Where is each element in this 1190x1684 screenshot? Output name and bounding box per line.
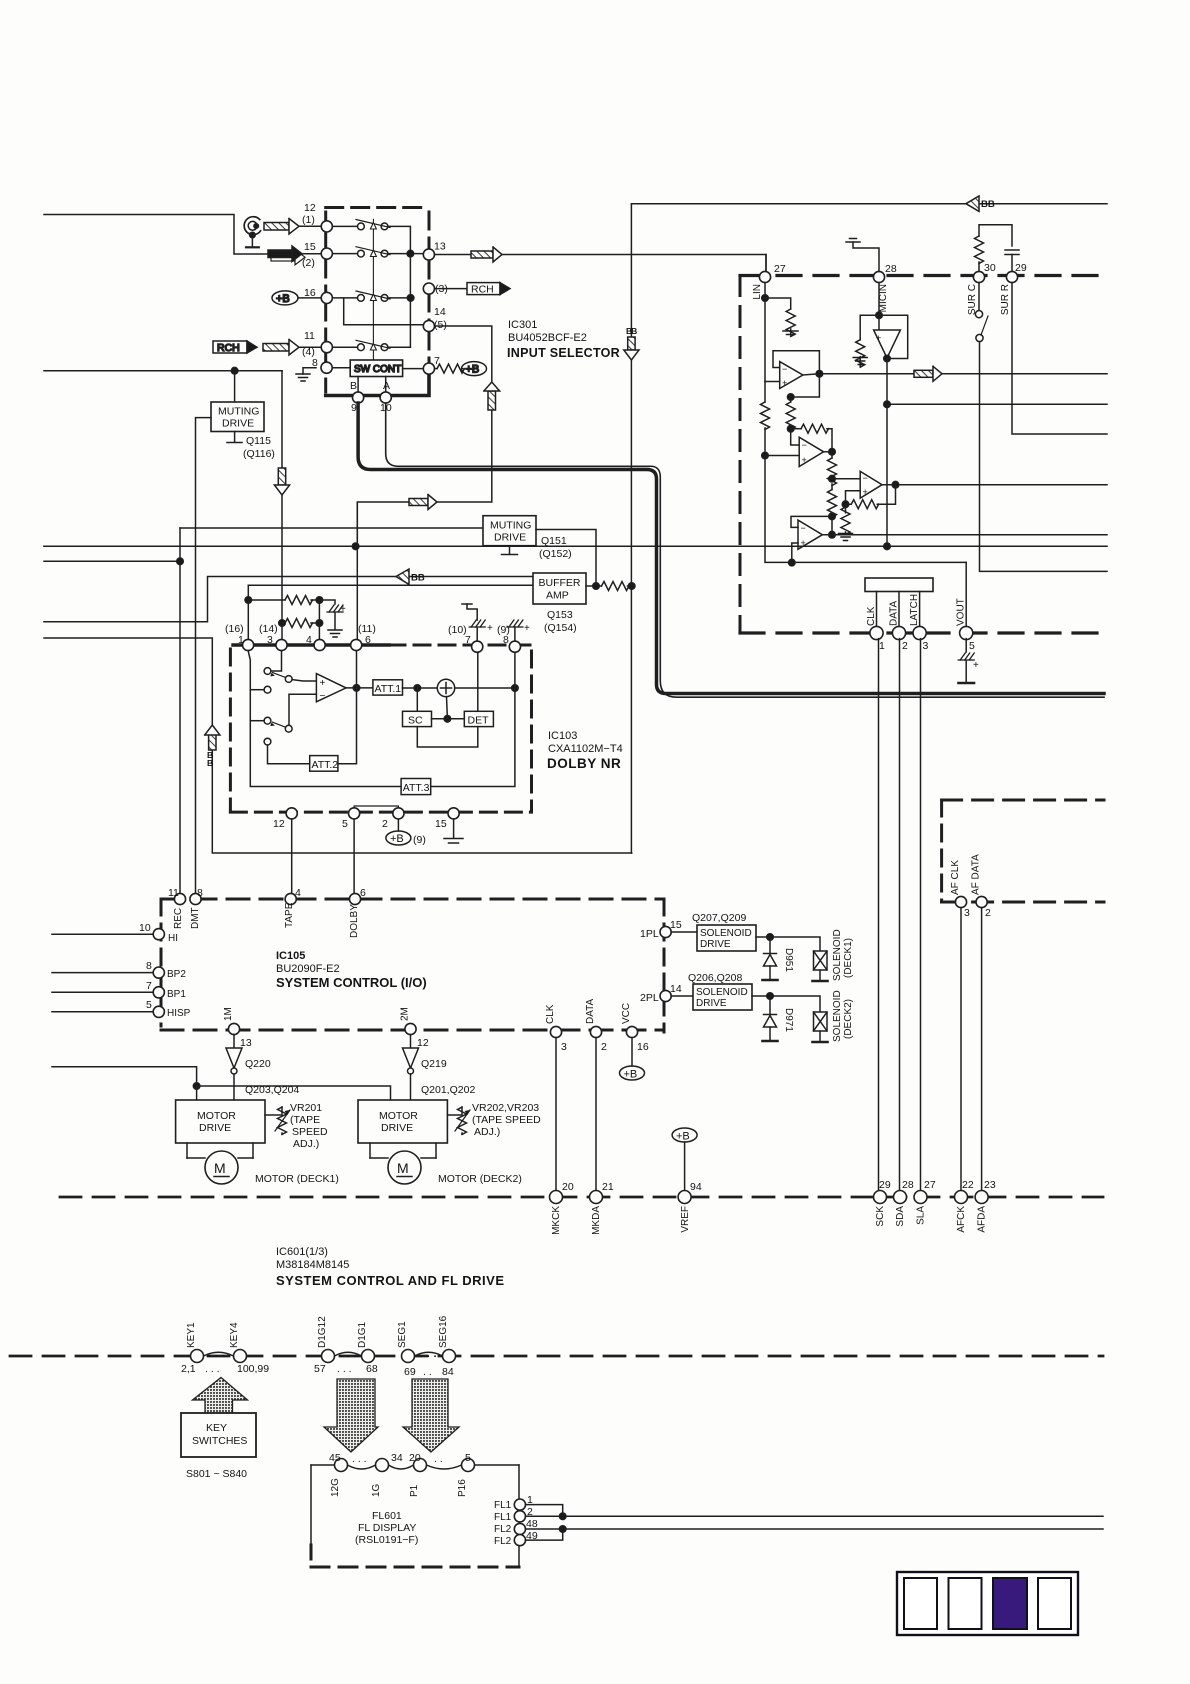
IC301 dashed box (326, 208, 429, 393)
svg-text:FL1: FL1 (494, 1512, 512, 1523)
svg-text:D971: D971 (783, 1008, 794, 1032)
wire supply into deck1 (196, 1086, 198, 1100)
dolby pin 7 (472, 641, 483, 652)
cap-gnd above pin 7 (462, 604, 493, 641)
IC105 top pin numbers (168, 887, 366, 899)
page bus dashed line y1197 (60, 1196, 1103, 1199)
wire pin1 top vertical (247, 600, 249, 641)
pin1 rail vertical (248, 651, 401, 787)
resistor fb-series (791, 424, 832, 452)
svg-text:2: 2 (601, 1041, 607, 1053)
switch row 4 pin 11 contacts (332, 340, 410, 350)
svg-text:. .: . . (423, 1366, 432, 1378)
wires pins 9-10 bold run (358, 403, 1104, 694)
wire feedback net down (791, 374, 820, 402)
svg-text:84: 84 (442, 1366, 454, 1378)
svg-text:3: 3 (561, 1041, 567, 1053)
+B at VREF (672, 1128, 697, 1191)
dolby bottom pin 5 (349, 808, 360, 819)
pin 1M (228, 1023, 239, 1034)
svg-text:AF CLK: AF CLK (950, 860, 961, 895)
wire sol2 out (752, 996, 820, 1012)
svg-text:5: 5 (465, 1452, 471, 1464)
svg-text:IC601(1/3): IC601(1/3) (276, 1246, 328, 1258)
wire fb node (790, 427, 792, 430)
dolby bottom pin 12 (286, 808, 297, 819)
pin 3 LATCH (913, 626, 926, 639)
svg-text:3: 3 (923, 640, 929, 652)
junction row 3 (407, 295, 414, 302)
svg-text:(Q152): (Q152) (539, 548, 572, 560)
svg-text:FL2: FL2 (494, 1524, 512, 1535)
svg-text:9: 9 (351, 402, 357, 414)
pin 13 (423, 249, 434, 260)
svg-text:KEY4: KEY4 (229, 1322, 240, 1348)
wire pin5 to IC105 (353, 819, 355, 893)
pin 5 VOUT (960, 626, 973, 639)
svg-text:FL2: FL2 (494, 1536, 512, 1547)
svg-text:D1G1: D1G1 (357, 1321, 368, 1348)
svg-text:+: + (524, 623, 530, 634)
svg-text:FL1: FL1 (494, 1500, 512, 1511)
svg-text:SW CONT: SW CONT (354, 364, 401, 375)
IC301 name label (507, 319, 620, 360)
svg-text:11: 11 (304, 330, 315, 342)
wire sol1 out (756, 937, 820, 951)
wire SC to DET (432, 718, 465, 720)
wire muting Q151 input (180, 527, 483, 529)
junction MICIN (876, 312, 883, 319)
wire pin14 down path (357, 326, 492, 540)
page square 3 active (993, 1578, 1027, 1629)
BB left arrow flag on buffer wire (396, 569, 425, 584)
box IC151 dashed top edge (740, 274, 1106, 277)
pin 8 DMT (190, 893, 201, 904)
svg-text:+B: +B (276, 293, 290, 305)
inverter Q219 (403, 1035, 447, 1100)
pin 94 VREF (678, 1191, 691, 1204)
box IC151 dashed left edge (739, 276, 742, 634)
pin 6 DOLBY (349, 893, 360, 904)
junction U4 in (789, 559, 796, 566)
svg-text:DRIVE: DRIVE (494, 532, 526, 544)
svg-text:2: 2 (985, 907, 991, 919)
junction U2 out (829, 449, 836, 456)
svg-text:SOLENOID: SOLENOID (832, 990, 843, 1042)
svg-text:D951: D951 (783, 948, 794, 972)
svg-text:Q201,Q202: Q201,Q202 (421, 1084, 475, 1096)
cap-gnd above pin 8 (507, 620, 530, 641)
svg-text:SLA: SLA (916, 1206, 927, 1225)
junction att1 out (414, 685, 421, 692)
key pin numbers below (181, 1363, 454, 1378)
wire CLK down (555, 1038, 557, 1191)
wire MICIN left loop resistor (853, 315, 879, 367)
+B(9) supply (386, 819, 426, 846)
svg-text:(RSL0191−F): (RSL0191−F) (355, 1534, 418, 1546)
wire U4 out long (822, 534, 1107, 536)
svg-text:1M: 1M (223, 1007, 234, 1021)
pin 29 SCK (874, 1191, 887, 1204)
BB down arrow flag (624, 326, 639, 360)
wire buffer lower input (248, 584, 533, 586)
pin 1 CLK (870, 626, 883, 639)
pin 12 (321, 221, 332, 232)
resistor top R1 (245, 585, 323, 604)
pin 28 SDA (894, 1191, 907, 1204)
svg-text:8: 8 (197, 887, 203, 899)
svg-text:ADJ.): ADJ.) (474, 1126, 500, 1138)
svg-text:P1: P1 (409, 1484, 420, 1497)
wire MICIN net (878, 283, 880, 330)
junction U5 out (884, 355, 891, 362)
BB left arrow flag top (966, 196, 995, 211)
junction U3 fb (842, 501, 849, 508)
FL601 box left lower dashed (310, 1545, 313, 1567)
pin 29 SUR R (1006, 271, 1017, 282)
svg-text:8: 8 (312, 357, 318, 369)
wire S1 lower to pin1 rail (250, 689, 264, 691)
capacitor at VOUT (958, 639, 979, 683)
hatched up arrow on pin14 wire (484, 382, 500, 410)
svg-text:−: − (801, 523, 806, 533)
wire top bus BB (631, 203, 1107, 205)
label Q115 (243, 435, 275, 460)
wire VOUT (965, 562, 967, 627)
svg-text:· · ·: · · · (208, 1351, 225, 1363)
wire junction to summing (446, 697, 449, 719)
op-amp U5 mic (down) (874, 330, 901, 358)
IC103 name label (547, 730, 623, 771)
hatched arrow on pin13 wire (471, 247, 502, 262)
junction mic out wire (884, 401, 891, 408)
pin 5 (462, 1459, 475, 1472)
svg-text:FL601: FL601 (372, 1510, 402, 1522)
junction FL1 (559, 1513, 566, 1520)
svg-text:AMP: AMP (546, 590, 569, 602)
op-amp U4 (798, 520, 822, 549)
svg-text:SEG16: SEG16 (438, 1315, 449, 1348)
wire vertical from top bus to dolby area (630, 204, 632, 853)
AF box dashed bottom edge (942, 901, 1104, 904)
svg-text:2,1: 2,1 (181, 1363, 196, 1375)
svg-text:TAPE: TAPE (284, 902, 295, 928)
svg-text:. . .: . . . (352, 1453, 367, 1465)
wire U2 output node (824, 451, 832, 453)
svg-text:ATT.3: ATT.3 (403, 782, 430, 794)
dolby bottom pin 15 (448, 808, 459, 819)
junction sol2 (767, 993, 774, 1000)
svg-text:1: 1 (238, 634, 244, 646)
wire DATA down (595, 1038, 597, 1191)
svg-text:AFCK: AFCK (956, 1206, 967, 1233)
motor deck2 (370, 1143, 436, 1184)
svg-text:SCK: SCK (875, 1206, 886, 1227)
svg-text:10: 10 (139, 922, 151, 934)
svg-text:+B: +B (466, 364, 480, 376)
wire buffer output resistor (586, 582, 632, 591)
junction A1 out pin6 rail (353, 685, 360, 692)
svg-text:48: 48 (526, 1518, 538, 1530)
page indicator outer frame (897, 1572, 1078, 1635)
wire to U2 -input (791, 429, 800, 445)
junction sc-det (444, 716, 451, 723)
svg-text:(10): (10) (448, 624, 467, 636)
pin8 rail (431, 652, 515, 786)
svg-text:SOLENOID: SOLENOID (832, 929, 843, 981)
svg-text:4: 4 (306, 634, 312, 646)
pin 10 (380, 392, 391, 403)
AF pin labels (950, 854, 982, 895)
wire summing to pin8 rail (455, 687, 515, 689)
wire U4 +input (792, 543, 798, 563)
svg-text:D1G12: D1G12 (317, 1316, 328, 1348)
svg-text:BP2: BP2 (167, 969, 186, 980)
svg-text:BB: BB (981, 199, 995, 210)
RCH flag right pin 3 (435, 283, 511, 296)
svg-text:ATT.2: ATT.2 (312, 759, 339, 771)
ATT.3 box (401, 779, 431, 795)
wire Q151 output (536, 530, 596, 587)
page square 2 (949, 1578, 982, 1629)
svg-text:SUR R: SUR R (1000, 284, 1011, 315)
solenoid drive box 1 (697, 925, 756, 951)
label solenoid deck1 (832, 929, 854, 981)
label VR202 (472, 1102, 541, 1138)
svg-text:INPUT SELECTOR: INPUT SELECTOR (507, 346, 620, 360)
svg-text:Q153: Q153 (547, 609, 573, 621)
svg-text:(TAPE SPEED: (TAPE SPEED (472, 1114, 541, 1126)
wire pin5-pin2 link (354, 806, 398, 808)
svg-text:HISP: HISP (167, 1008, 191, 1019)
svg-text:12: 12 (417, 1037, 429, 1049)
inverter Q220 (226, 1035, 271, 1100)
FL top pin numbers (329, 1452, 471, 1465)
wire AFDA down (981, 908, 983, 1191)
svg-text:SEG1: SEG1 (397, 1321, 408, 1348)
wire SC DET bottom loop (417, 727, 478, 747)
wire left input top (44, 215, 268, 255)
svg-text:DRIVE: DRIVE (700, 939, 731, 950)
svg-text:(DECK1): (DECK1) (843, 938, 854, 978)
pin 21 MKDA (590, 1191, 603, 1204)
svg-text:45: 45 (329, 1452, 341, 1464)
FL right pins (514, 1499, 525, 1510)
resistor U3 gnd (839, 504, 853, 540)
svg-text:MKCK: MKCK (551, 1206, 562, 1235)
svg-text:P16: P16 (457, 1479, 468, 1497)
svg-text:SPEED: SPEED (292, 1126, 328, 1138)
svg-text:M: M (214, 1160, 226, 1176)
svg-text:DRIVE: DRIVE (199, 1122, 231, 1134)
pin 7 BP1 (52, 987, 164, 998)
common output wire vertical (409, 254, 411, 348)
svg-text:VR202,VR203: VR202,VR203 (472, 1102, 539, 1114)
pin 7 (423, 363, 434, 374)
wire S2 lower to ATT2 (268, 745, 310, 764)
IC601 name label (276, 1246, 505, 1288)
svg-text:13: 13 (240, 1037, 252, 1049)
junction rows 1-2 (407, 250, 414, 257)
junction muting tap (231, 367, 238, 374)
key pin dots (208, 1351, 437, 1363)
svg-text:MOTOR (DECK2): MOTOR (DECK2) (438, 1173, 522, 1185)
svg-text:20: 20 (562, 1181, 574, 1193)
SW CONT box (350, 360, 402, 377)
svg-text:12G: 12G (330, 1478, 341, 1497)
buffer amp box (533, 573, 586, 604)
wire U3 feedback (877, 485, 895, 505)
svg-text:30: 30 (984, 262, 996, 274)
label Q151 (539, 535, 572, 560)
svg-text:B: B (350, 380, 357, 392)
junction y546 (884, 543, 891, 550)
svg-text:MUTING: MUTING (490, 520, 531, 532)
svg-text:· · ·: · · · (340, 1351, 357, 1363)
svg-text:5: 5 (146, 999, 152, 1011)
VR201 trimmer (265, 1107, 290, 1135)
svg-text:+B: +B (624, 1069, 638, 1081)
ground pin 15 (444, 819, 463, 843)
pin 4 TAPE (285, 893, 296, 904)
pin 34 (376, 1459, 389, 1472)
svg-text:+: + (487, 623, 493, 634)
svg-text:29: 29 (879, 1179, 891, 1191)
svg-text:SC: SC (408, 715, 423, 727)
pin 8 (321, 362, 332, 373)
svg-text:+B: +B (676, 1131, 690, 1143)
svg-text:(5): (5) (434, 319, 447, 331)
wire page-left y561 (44, 560, 180, 562)
IC103 bold top edge (233, 643, 389, 646)
wire B to pin 9 (357, 377, 359, 393)
svg-text:34: 34 (391, 1452, 403, 1464)
pin DIG12 (322, 1350, 335, 1363)
svg-text:SYSTEM CONTROL AND FL DRIVE: SYSTEM CONTROL AND FL DRIVE (276, 1273, 505, 1288)
pin 45 (335, 1459, 348, 1472)
solenoid deck1 symbol (813, 951, 828, 981)
pin 9 (353, 392, 364, 403)
switch row 1 pins 12 contacts (332, 220, 410, 251)
svg-text:7: 7 (434, 355, 440, 367)
svg-text:+: + (340, 604, 346, 615)
svg-text:ADJ.): ADJ.) (293, 1138, 319, 1150)
svg-text:3: 3 (964, 907, 970, 919)
junction chain2 (829, 513, 836, 520)
svg-text:A: A (383, 380, 390, 392)
svg-text:15: 15 (304, 241, 316, 253)
wire FL1-1 bracket (526, 1505, 563, 1517)
svg-text:−: − (782, 364, 787, 374)
label solenoid deck2 (832, 990, 854, 1042)
wire SURR down long (1012, 283, 1107, 434)
motor deck1 (187, 1143, 253, 1184)
svg-text:11: 11 (168, 887, 179, 899)
pin 20 MKCK (550, 1191, 563, 1204)
wire A to pin 10 (385, 377, 387, 393)
svg-text:94: 94 (690, 1181, 702, 1193)
dolby pin 8 (509, 641, 520, 652)
svg-text:1PL: 1PL (640, 928, 659, 940)
svg-text:1: 1 (879, 640, 885, 652)
ground at pin 8 (296, 368, 316, 381)
svg-text:SOLENOID: SOLENOID (696, 987, 748, 998)
svg-text:MOTOR: MOTOR (379, 1110, 418, 1122)
svg-text:BP1: BP1 (167, 989, 186, 1000)
op-amp dolby A1 (316, 674, 346, 702)
svg-text:BU4052BCF-E2: BU4052BCF-E2 (508, 332, 587, 344)
summing node circle (437, 679, 454, 696)
svg-text:VCC: VCC (621, 1003, 632, 1024)
svg-text:6: 6 (360, 887, 366, 899)
svg-text:DET: DET (468, 715, 490, 727)
junction LIN (762, 295, 769, 302)
dolby pin 6 (351, 639, 362, 650)
resistor above pin 30 (975, 225, 1013, 272)
wire pin16 loop to pin 14 (344, 298, 423, 325)
svg-text:RCH: RCH (471, 283, 494, 295)
wire U3 fb to +in (846, 491, 861, 504)
wire page-left y638 outer box (44, 638, 632, 853)
svg-text:Q220: Q220 (245, 1058, 271, 1070)
wire supply to deck2 (197, 1086, 391, 1100)
wire DATA (898, 592, 900, 628)
svg-text:6: 6 (365, 634, 371, 646)
pin 27 SLA (914, 1191, 927, 1204)
svg-text:(1): (1) (302, 214, 315, 226)
svg-text:14: 14 (434, 306, 446, 318)
pin 8 BP2 (52, 967, 164, 978)
svg-text:CLK: CLK (545, 1004, 556, 1024)
svg-text:(TAPE: (TAPE (290, 1114, 320, 1126)
resistor chain r1 (828, 452, 837, 490)
svg-text:IC103: IC103 (548, 730, 577, 742)
svg-text:LATCH: LATCH (909, 594, 920, 626)
svg-text:IC301: IC301 (508, 319, 537, 331)
wire U4 feedback loop (791, 516, 832, 527)
wire U1a +input (765, 381, 780, 383)
svg-text:FL DISPLAY: FL DISPLAY (358, 1522, 416, 1534)
svg-text:15: 15 (670, 919, 682, 931)
junction pin8 rail (512, 685, 519, 692)
pin SEG1 (402, 1350, 415, 1363)
hatched right arrow on y502 wire (409, 495, 437, 510)
wire SW CONT to pin 7 (403, 368, 423, 370)
wire pin12 to IC105 (291, 819, 293, 893)
svg-text:RCH: RCH (217, 342, 240, 354)
wire FL1-2 long (526, 1515, 1104, 1517)
svg-text:21: 21 (602, 1181, 614, 1193)
FL601 box top edge (311, 1465, 519, 1469)
svg-text:4: 4 (295, 887, 301, 899)
FL pin numbers (526, 1494, 538, 1542)
svg-text:2M: 2M (400, 1007, 411, 1021)
op-amp U3 (860, 471, 882, 498)
stippled down arrow digits (324, 1379, 378, 1452)
op-amp U1a (780, 362, 803, 389)
svg-text:. . .: . . . (337, 1363, 352, 1375)
svg-text:AF DATA: AF DATA (971, 854, 982, 895)
svg-text:DRIVE: DRIVE (696, 998, 727, 1009)
svg-text:Q203,Q204: Q203,Q204 (245, 1084, 299, 1096)
svg-text:VOUT: VOUT (956, 598, 967, 626)
wire LIN node (764, 283, 766, 382)
BB up arrow flag left (205, 725, 220, 768)
dolby pin 1 (243, 639, 254, 650)
wire key waves (204, 1352, 443, 1356)
junction U1a out (816, 371, 823, 378)
junction chain1 (829, 475, 836, 482)
